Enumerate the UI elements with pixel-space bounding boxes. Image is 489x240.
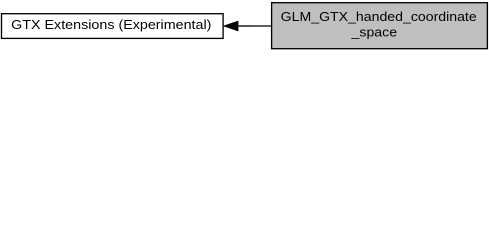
module dependency graph: GLM_GTX_handed_coordinate_space <box>0 0 489 52</box>
node: GTX Extensions (Experimental) <box>2 14 224 39</box>
svg-text:GLM_GTX_handed_coordinate: GLM_GTX_handed_coordinate <box>281 9 477 24</box>
node: GLM_GTX_handed_coordinate_space (current, grey) <box>272 3 488 49</box>
svg-text:GTX Extensions (Experimental): GTX Extensions (Experimental) <box>11 17 211 32</box>
background <box>0 0 489 52</box>
edge arrow <box>224 21 271 30</box>
svg-text:_space: _space <box>350 25 397 40</box>
